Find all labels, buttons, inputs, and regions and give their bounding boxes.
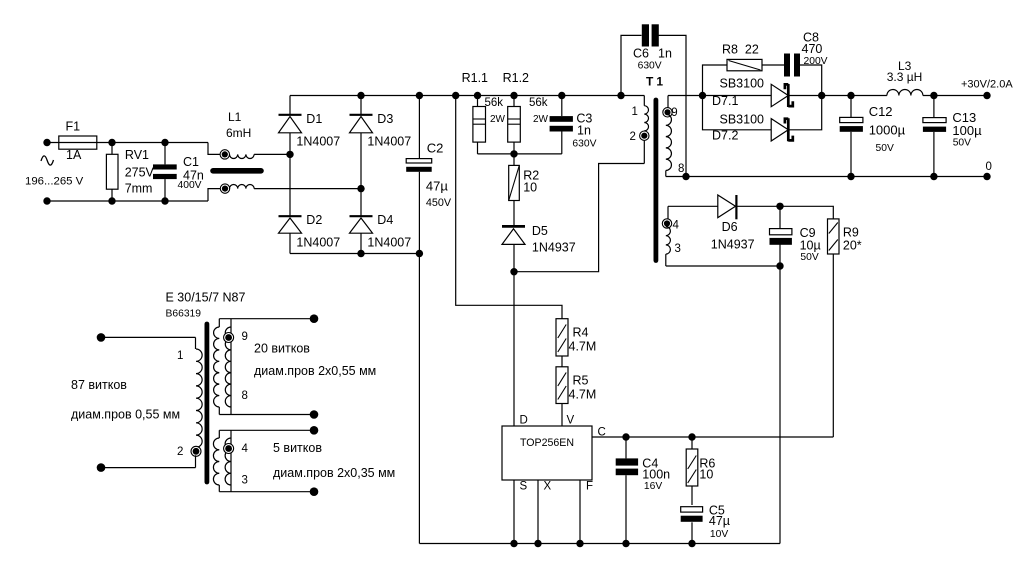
- svg-text:D3: D3: [377, 112, 393, 126]
- wire feedback to control pin rail: [592, 436, 833, 438]
- capacitor C3: [550, 96, 597, 154]
- wire bias return to source rail: [779, 266, 781, 544]
- transformer T1 label: [646, 75, 666, 89]
- node C2 top rail junction: [416, 92, 423, 99]
- svg-text:16V: 16V: [644, 481, 662, 492]
- resistor R6: [686, 437, 715, 505]
- svg-text:D7.2: D7.2: [712, 128, 738, 142]
- wire bias winding positive: [668, 205, 718, 207]
- svg-text:200V: 200V: [804, 56, 828, 67]
- svg-text:F: F: [586, 481, 593, 493]
- svg-text:RV1: RV1: [125, 148, 149, 162]
- node C4 tap on control rail: [622, 433, 629, 440]
- svg-text:50V: 50V: [953, 138, 971, 149]
- node C5 bottom junction: [688, 540, 695, 547]
- label диам.пров 0,55 мм: [71, 408, 180, 422]
- resistor R4: [556, 319, 596, 367]
- node rectifier output junction: [818, 92, 825, 99]
- resistor R2: [509, 154, 540, 225]
- node AC input neutral terminal: [43, 197, 50, 204]
- svg-text:C1: C1: [183, 155, 199, 169]
- node AC input live terminal: [43, 139, 50, 146]
- diode D3: [350, 96, 412, 189]
- capacitor C2: [406, 96, 452, 254]
- svg-text:275V: 275V: [125, 165, 155, 179]
- svg-text:SB3100: SB3100: [720, 112, 765, 126]
- svg-text:C12: C12: [869, 104, 893, 119]
- capacitor C5: [681, 504, 730, 544]
- svg-text:0: 0: [986, 161, 992, 173]
- svg-text:C2: C2: [427, 140, 444, 155]
- svg-text:1n: 1n: [577, 123, 591, 137]
- T1 bias winding pins 4-3: [662, 206, 681, 266]
- node secondary rectifier input junction: [699, 92, 706, 99]
- wire AC neutral rail: [47, 200, 208, 202]
- wire bias feed to R4: [456, 96, 562, 319]
- AC source symbol: [41, 156, 54, 165]
- label 20 витков: [254, 342, 310, 356]
- svg-text:450V: 450V: [426, 197, 452, 209]
- svg-text:4: 4: [673, 219, 680, 231]
- svg-text:10: 10: [699, 467, 713, 481]
- label диам.пров 2x0,55 мм: [254, 364, 376, 378]
- diode D4: [350, 189, 412, 254]
- wire to R9: [780, 206, 833, 219]
- diode D1: [279, 96, 341, 155]
- winding W3 5 turns pins 4-3: [213, 426, 318, 496]
- svg-text:C: C: [598, 426, 606, 438]
- capacitor C9: [770, 206, 821, 266]
- svg-text:2W: 2W: [533, 114, 549, 125]
- svg-text:5 витков: 5 витков: [273, 441, 322, 455]
- varistor RV1: [106, 143, 154, 202]
- svg-text:20 витков: 20 витков: [254, 342, 310, 356]
- choke L1 core bar: [213, 168, 261, 174]
- wire live to choke winding: [208, 143, 221, 155]
- svg-text:S: S: [520, 481, 528, 493]
- svg-text:2W: 2W: [490, 114, 506, 125]
- node divider mid junction: [510, 150, 517, 157]
- svg-text:TOP256EN: TOP256EN: [520, 437, 574, 449]
- svg-text:D4: D4: [377, 213, 393, 227]
- svg-text:10V: 10V: [710, 529, 728, 540]
- svg-text:R4: R4: [573, 326, 589, 340]
- svg-text:диам.пров 0,55 мм: диам.пров 0,55 мм: [71, 408, 180, 422]
- svg-text:D7.1: D7.1: [712, 94, 738, 108]
- svg-text:3: 3: [242, 475, 248, 487]
- svg-text:R1.2: R1.2: [503, 71, 529, 85]
- node R1.2 top rail junction: [510, 92, 517, 99]
- svg-text:L1: L1: [228, 110, 242, 124]
- svg-text:2: 2: [177, 446, 183, 458]
- svg-text:47µ: 47µ: [426, 179, 448, 194]
- svg-text:56k: 56k: [529, 97, 548, 109]
- svg-text:4: 4: [242, 443, 249, 455]
- resistor R1.1: [462, 71, 506, 154]
- svg-text:100µ: 100µ: [952, 123, 982, 138]
- svg-text:8: 8: [242, 390, 248, 402]
- svg-text:1N4937: 1N4937: [532, 241, 576, 255]
- svg-text:56k: 56k: [485, 97, 504, 109]
- node output +30V terminal: [983, 92, 990, 99]
- svg-text:630V: 630V: [572, 138, 596, 149]
- svg-text:50V: 50V: [800, 252, 818, 263]
- svg-text:4.7M: 4.7M: [569, 388, 597, 402]
- node L3 output junction: [930, 92, 937, 99]
- node R6 tap on control rail: [688, 433, 695, 440]
- svg-text:3.3 µH: 3.3 µH: [887, 70, 923, 84]
- T1 primary winding pins 1-2: [630, 96, 650, 164]
- svg-text:47µ: 47µ: [709, 514, 730, 528]
- svg-text:1000µ: 1000µ: [869, 123, 906, 138]
- svg-text:1: 1: [177, 350, 183, 362]
- svg-text:1N4937: 1N4937: [711, 238, 755, 252]
- node C6 tap on rail: [617, 92, 624, 99]
- svg-text:R1.1: R1.1: [462, 71, 488, 85]
- node R1.1 top rail junction: [474, 92, 481, 99]
- node C13 bottom junction: [930, 173, 937, 180]
- svg-text:3: 3: [675, 243, 681, 255]
- choke L1 top winding: [220, 150, 290, 159]
- svg-text:1N4007: 1N4007: [367, 135, 411, 149]
- node D5 anode junction: [510, 268, 517, 275]
- wire secondary ground rail: [666, 176, 987, 178]
- winding W1 87 turns pins 1-2: [97, 333, 202, 472]
- capacitor C4: [616, 437, 670, 544]
- IC U1 TOP256EN: [502, 415, 606, 493]
- resistor R5: [556, 367, 596, 426]
- svg-text:D: D: [520, 415, 528, 427]
- node D6 cathode junction: [776, 203, 783, 210]
- svg-text:8: 8: [678, 163, 684, 175]
- svg-text:T1: T1: [646, 75, 666, 89]
- svg-text:6mH: 6mH: [226, 126, 251, 140]
- node C1 bottom: [161, 197, 168, 204]
- svg-text:1N4007: 1N4007: [367, 236, 411, 250]
- diode D5: [502, 224, 576, 272]
- pin S wire: [510, 480, 517, 547]
- wire primary source bottom rail: [419, 543, 780, 545]
- label B66319: [166, 309, 202, 320]
- node C12 top junction: [847, 92, 854, 99]
- winding W2 20 turns pins 9-8: [214, 314, 319, 418]
- node C1 top: [161, 139, 168, 146]
- svg-text:D5: D5: [532, 224, 548, 238]
- node D4 bottom junction: [357, 250, 364, 257]
- capacitor C6: [621, 24, 686, 176]
- capacitor C1: [153, 143, 204, 202]
- inductor L3: [887, 59, 923, 95]
- capacitor C13: [923, 96, 982, 177]
- svg-text:1A: 1A: [66, 148, 82, 162]
- pin X wire: [534, 480, 541, 547]
- svg-text:R9: R9: [843, 225, 859, 239]
- node C3 top rail junction: [558, 92, 565, 99]
- svg-text:C6: C6: [633, 47, 649, 61]
- node D3 D4 junction: [357, 185, 364, 192]
- wire primary return down line: [418, 254, 420, 544]
- node C12 bottom junction: [847, 173, 854, 180]
- capacitor C12: [840, 96, 906, 177]
- svg-text:1n: 1n: [658, 47, 672, 61]
- svg-text:10: 10: [523, 181, 537, 195]
- node bias return junction: [776, 262, 783, 269]
- node output 0V terminal: [983, 173, 990, 180]
- choke L1 labels: [226, 110, 251, 140]
- svg-text:F1: F1: [66, 120, 81, 134]
- svg-text:R5: R5: [573, 374, 589, 388]
- svg-text:7mm: 7mm: [125, 182, 153, 196]
- snubber capacitor C8: [784, 31, 828, 96]
- E-core ferrite bar: [204, 324, 209, 482]
- svg-text:диам.пров 2x0,35 мм: диам.пров 2x0,35 мм: [273, 466, 395, 480]
- node C4 bottom junction: [622, 540, 629, 547]
- svg-text:9: 9: [242, 331, 248, 343]
- svg-text:20*: 20*: [843, 238, 862, 252]
- svg-text:+30V/2.0A: +30V/2.0A: [961, 79, 1013, 91]
- svg-text:100n: 100n: [642, 467, 670, 481]
- fuse F1: [59, 120, 97, 163]
- svg-text:4.7M: 4.7M: [569, 340, 597, 354]
- node choke to D1 D2 junction: [286, 151, 293, 158]
- label 0: [986, 161, 992, 173]
- label 87 витков: [71, 378, 127, 392]
- label E 30/15/7 N87: [166, 291, 246, 305]
- diode D7.1 SB3100: [703, 76, 822, 108]
- svg-text:10µ: 10µ: [800, 238, 821, 252]
- svg-text:1N4007: 1N4007: [296, 236, 340, 250]
- node C6 to secondary ground junction: [682, 173, 689, 180]
- node C2 bottom junction: [416, 250, 423, 257]
- T1 secondary winding pins 9-8: [663, 96, 685, 177]
- svg-text:B66319: B66319: [166, 309, 202, 320]
- node RV1 bottom junction: [108, 197, 115, 204]
- wire bridge negative rail: [290, 253, 419, 255]
- svg-text:диам.пров 2x0,55 мм: диам.пров 2x0,55 мм: [254, 364, 376, 378]
- svg-text:1N4007: 1N4007: [296, 135, 340, 149]
- wire neutral to choke winding: [208, 189, 221, 201]
- wire pin 9 to rectifier junction: [668, 95, 703, 97]
- label 196...265 V: [25, 176, 84, 188]
- resistor R9: [828, 219, 862, 437]
- resistor R1.2: [503, 71, 549, 154]
- label 5 витков: [273, 441, 322, 455]
- snubber resistor R8: [703, 43, 785, 96]
- svg-text:50V: 50V: [876, 143, 894, 154]
- wire D5 to primary winding return: [514, 164, 644, 272]
- svg-text:196...265 V: 196...265 V: [25, 176, 84, 188]
- svg-text:400V: 400V: [178, 180, 202, 191]
- label +30V/2.0A: [961, 79, 1013, 91]
- wire bias winding return: [666, 265, 780, 267]
- node fuse to RV1 junction: [108, 139, 115, 146]
- svg-text:470: 470: [802, 42, 823, 56]
- node bias feed tap on rail: [452, 92, 459, 99]
- wire drain line to TOP256EN: [513, 272, 515, 426]
- svg-text:87 витков: 87 витков: [71, 378, 127, 392]
- svg-text:R8 22: R8 22: [722, 43, 759, 57]
- svg-text:D6: D6: [722, 220, 738, 234]
- svg-text:X: X: [544, 481, 552, 493]
- pin F wire: [576, 480, 583, 547]
- diode D6: [711, 195, 780, 252]
- svg-text:D1: D1: [306, 112, 322, 126]
- svg-text:630V: 630V: [638, 60, 662, 71]
- svg-text:9: 9: [671, 107, 677, 119]
- svg-text:1: 1: [632, 106, 638, 118]
- svg-text:V: V: [567, 415, 575, 427]
- svg-text:D2: D2: [306, 213, 322, 227]
- node D3 top rail junction: [357, 92, 364, 99]
- diode D7.2 SB3100: [703, 96, 822, 143]
- label диам.пров 2x0,35 мм: [273, 466, 395, 480]
- T1 core bar: [654, 100, 659, 261]
- svg-text:SB3100: SB3100: [720, 76, 765, 90]
- wire output positive rail: [822, 95, 987, 97]
- wire AC live rail: [47, 142, 208, 144]
- wire HV positive top rail: [290, 95, 644, 97]
- diode D2: [279, 154, 341, 253]
- choke L1 bottom winding: [220, 184, 361, 193]
- svg-text:2: 2: [630, 131, 636, 143]
- svg-text:E 30/15/7 N87: E 30/15/7 N87: [166, 291, 246, 305]
- wire divider bottom link: [478, 153, 562, 155]
